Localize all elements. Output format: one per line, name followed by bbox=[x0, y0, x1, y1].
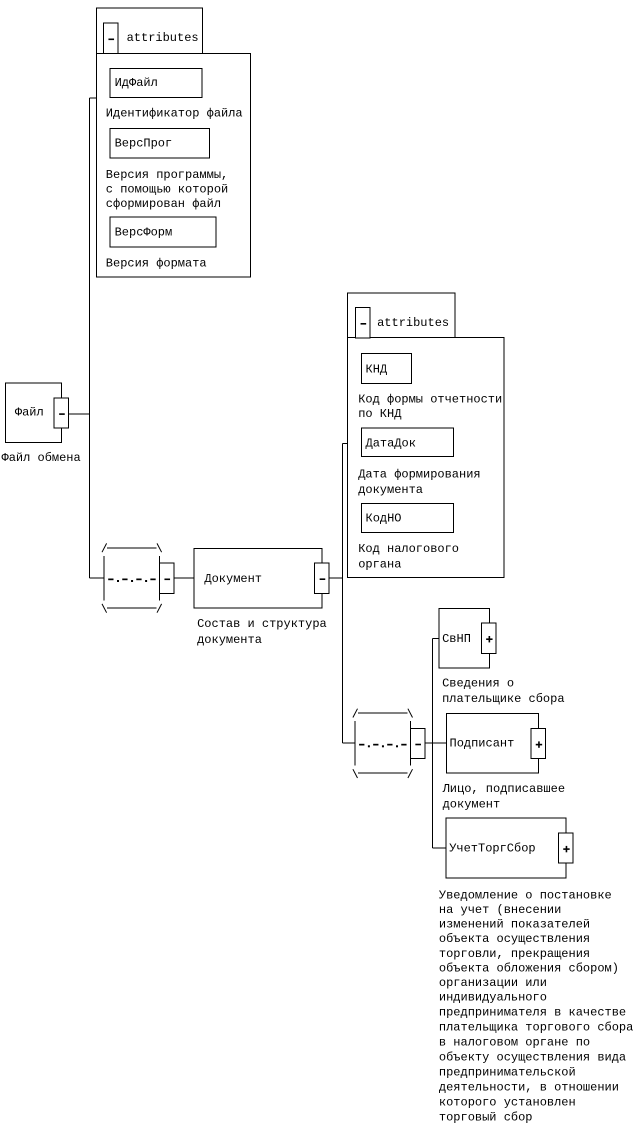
svg-text:предпринимательской: предпринимательской bbox=[439, 1066, 576, 1080]
svg-text:документа: документа bbox=[358, 483, 423, 497]
svg-text:Код налогового: Код налогового bbox=[358, 542, 459, 556]
svg-text:плательщике сбора: плательщике сбора bbox=[442, 692, 564, 706]
svg-text:организации или: организации или bbox=[439, 976, 547, 990]
svg-text:торговли, прекращения: торговли, прекращения bbox=[439, 947, 590, 961]
svg-text:объекту осуществления вида: объекту осуществления вида bbox=[439, 1051, 626, 1065]
svg-text:СвНП: СвНП bbox=[442, 632, 471, 646]
svg-text:объекта обложения сбором): объекта обложения сбором) bbox=[439, 961, 619, 975]
svg-text:Версия формата: Версия формата bbox=[106, 257, 207, 271]
svg-text:деятельности, в отношении: деятельности, в отношении bbox=[439, 1081, 619, 1095]
svg-text:документ: документ bbox=[443, 797, 501, 811]
svg-text:которого установлен: которого установлен bbox=[439, 1096, 576, 1110]
svg-text:органа: органа bbox=[358, 558, 401, 572]
svg-text:объекта осуществления: объекта осуществления bbox=[439, 932, 590, 946]
svg-text:attributes: attributes bbox=[377, 316, 449, 330]
svg-text:ВерсПрог: ВерсПрог bbox=[115, 136, 173, 150]
svg-text:предпринимателя в качестве: предпринимателя в качестве bbox=[439, 1006, 626, 1020]
svg-text:плательщика торгового сбора: плательщика торгового сбора bbox=[439, 1021, 633, 1035]
svg-text:Лицо, подписавшее: Лицо, подписавшее bbox=[442, 782, 565, 796]
svg-text:изменений показателей: изменений показателей bbox=[439, 918, 590, 932]
svg-text:ДатаДок: ДатаДок bbox=[366, 436, 416, 450]
svg-text:Код формы отчетности: Код формы отчетности bbox=[358, 393, 502, 407]
svg-text:ИдФайл: ИдФайл bbox=[115, 76, 158, 90]
svg-text:КНД: КНД bbox=[366, 362, 388, 376]
svg-text:Подписант: Подписант bbox=[450, 736, 515, 750]
svg-text:Идентификатор файла: Идентификатор файла bbox=[106, 107, 243, 121]
svg-text:Версия программы,: Версия программы, bbox=[106, 168, 228, 182]
svg-text:с помощью которой: с помощью которой bbox=[106, 183, 228, 197]
svg-text:УчетТоргСбор: УчетТоргСбор bbox=[449, 841, 535, 855]
svg-text:индивидуального: индивидуального bbox=[439, 991, 547, 1005]
svg-text:Уведомление о постановке: Уведомление о постановке bbox=[439, 888, 612, 902]
svg-text:attributes: attributes bbox=[127, 31, 199, 45]
svg-text:Документ: Документ bbox=[204, 572, 262, 586]
svg-text:Файл обмена: Файл обмена bbox=[2, 451, 81, 465]
svg-text:Состав и структура: Состав и структура bbox=[197, 617, 327, 631]
svg-text:по КНД: по КНД bbox=[358, 407, 402, 421]
svg-text:ВерсФорм: ВерсФорм bbox=[115, 226, 173, 240]
svg-text:Сведения о: Сведения о bbox=[442, 677, 514, 691]
svg-text:торговый сбор: торговый сбор bbox=[439, 1111, 533, 1125]
svg-text:КодНО: КодНО bbox=[366, 512, 402, 526]
svg-text:Файл: Файл bbox=[15, 406, 44, 420]
svg-text:документа: документа bbox=[197, 633, 262, 647]
svg-text:Дата формирования: Дата формирования bbox=[358, 468, 480, 482]
svg-text:на учет (внесении: на учет (внесении bbox=[439, 903, 561, 917]
svg-text:сформирован файл: сформирован файл bbox=[106, 197, 221, 211]
svg-text:в налоговом органе по: в налоговом органе по bbox=[439, 1036, 590, 1050]
